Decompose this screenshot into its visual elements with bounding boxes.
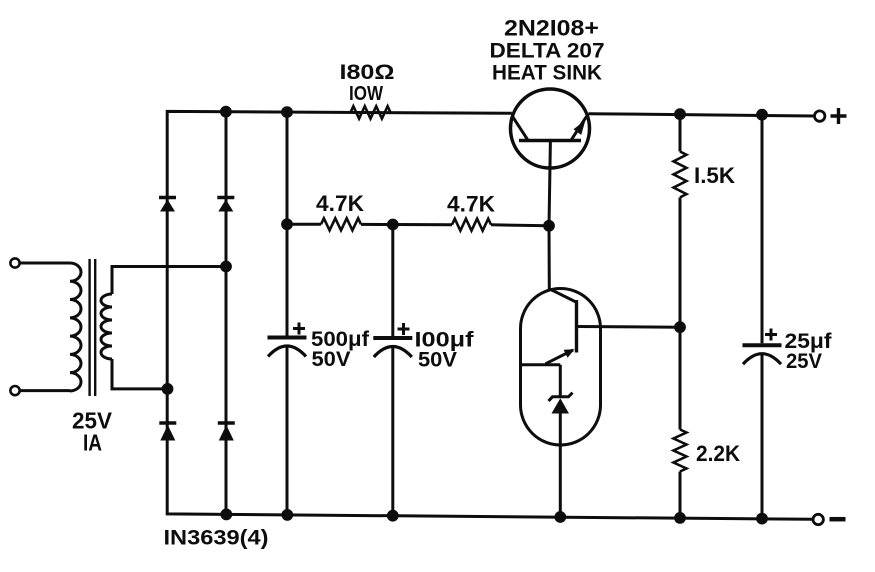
svg-text:I.5K: I.5K (694, 163, 735, 188)
transformer T1 secondary bottom lead (112, 359, 168, 389)
svg-text:DELTA 207: DELTA 207 (490, 40, 605, 63)
wire 1.5K to mid node and to 2.2K (679, 198, 682, 430)
transistor Q1 2N2108 circle (511, 89, 590, 168)
node bottom rail / 25uf (756, 513, 768, 525)
capacitor C3 25uf top plate (743, 343, 782, 347)
transistor Q1 emitter lead (572, 117, 587, 140)
zener diode VR1 triangle (552, 398, 570, 413)
wire vertical line4 (100uf branch upper) (391, 225, 394, 337)
node top rail / line3 (281, 106, 293, 118)
transformer T1 core (88, 259, 90, 396)
svg-text:IA: IA (83, 430, 102, 456)
capacitor C2 plus sign (398, 323, 410, 335)
transformer T1 primary winding (70, 263, 81, 391)
svg-text:2.2K: 2.2K (696, 441, 740, 466)
wire node4 to R3 (393, 223, 452, 226)
node bottom rail / 2.2K (674, 512, 686, 524)
node top rail / 25uf (756, 109, 768, 121)
capacitor C1 500uf top plate (268, 336, 307, 340)
node Q2 base / divider (674, 321, 686, 333)
wire top rail left + left vertical + bottom rail (167, 111, 813, 519)
capacitor C2 100uf top plate (373, 336, 412, 340)
node 4.7K row / line4 (387, 219, 399, 231)
node secondary bottom / line1 (162, 383, 174, 395)
diode D2 cathode bar (217, 196, 234, 199)
transformer T1 primary terminal top (10, 258, 19, 267)
wire 4.7K row: node3 to R2 (287, 223, 321, 226)
wire Q2 emitter down to zener (559, 365, 562, 397)
wire 25uf branch lower (761, 355, 764, 519)
capacitor C3 plus sign (765, 329, 777, 341)
capacitor C2 100uf curved plate (374, 347, 412, 358)
resistor 2.2K zigzag (674, 430, 687, 472)
wire Q2 emitter horizontal (521, 363, 561, 366)
diode D1 cathode bar (159, 196, 176, 199)
wire R2 to node4 (361, 223, 393, 226)
resistor 180 ohm 10W zigzag (351, 106, 391, 118)
diode D4 triangle (219, 425, 234, 441)
transistor Q2 base bar (575, 300, 578, 353)
capacitor C1 plus sign (293, 323, 305, 335)
svg-text:50V: 50V (418, 349, 457, 372)
diode D4 cathode bar (218, 421, 235, 424)
output minus sign (830, 517, 846, 522)
wire vertical line2 (bridge branch) (225, 112, 228, 515)
wire zener to bottom rail (559, 414, 562, 518)
transformer T1 secondary winding (101, 294, 112, 359)
svg-text:4.7K: 4.7K (316, 191, 364, 216)
wire 2.2K to bottom rail (679, 472, 682, 519)
svg-text:25V: 25V (786, 350, 822, 373)
transformer T1 primary bottom lead (20, 389, 71, 392)
transformer T1 primary terminal bottom (10, 386, 19, 395)
node bottom rail / line3 (281, 509, 293, 521)
output terminal plus circle (815, 111, 825, 121)
node 4.7K row / line3 (281, 218, 293, 230)
resistor 1.5K zigzag (674, 152, 687, 198)
wire vertical line3 (500uf branch upper) (286, 112, 289, 336)
wire R3 to Q1 base node (491, 225, 549, 226)
node top rail / line2 (220, 106, 232, 118)
node secondary top / line2 (220, 261, 232, 273)
wire divider line: rail to 1.5K (679, 114, 682, 151)
zener diode VR1 cathode bar (549, 393, 573, 401)
transformer T1 secondary top lead (112, 267, 226, 295)
wire Q2 base to divider node (577, 325, 681, 329)
node top rail / divider (674, 108, 686, 120)
node Q1 base / 4.7K (543, 220, 555, 232)
transistor Q2 emitter lead (546, 350, 574, 364)
svg-text:IOW: IOW (349, 83, 383, 105)
diode D3 cathode bar (159, 421, 176, 424)
wire vertical line4 (100uf branch lower) (391, 348, 394, 516)
wire top rail right (589, 114, 815, 116)
resistor 4.7K left zigzag (321, 218, 361, 230)
capacitor C1 500uf curved plate (268, 346, 306, 357)
wire node to Q2 collector entry (548, 226, 551, 289)
diode D1 triangle (160, 200, 175, 212)
Q2 package stadium outline (521, 289, 601, 446)
wire Q1 base down to 4.7K node (549, 141, 550, 226)
transistor Q1 emitter arrow (574, 120, 586, 135)
wire vertical line3 (500uf branch lower) (286, 348, 289, 516)
node bottom rail / zener (554, 511, 566, 523)
diode D2 triangle (218, 200, 233, 212)
svg-text:4.7K: 4.7K (447, 191, 495, 216)
transistor Q2 collector lead (549, 289, 577, 303)
svg-text:2N2I08+: 2N2I08+ (504, 16, 599, 41)
node bottom rail / line2 (220, 509, 232, 521)
svg-text:HEAT SINK: HEAT SINK (492, 62, 602, 85)
output plus sign (831, 108, 847, 124)
transistor Q2 emitter arrow (564, 349, 575, 358)
node bottom rail / line4 (387, 510, 399, 522)
diode D3 triangle (160, 425, 175, 441)
svg-text:50V: 50V (312, 348, 351, 371)
svg-text:IN3639(4): IN3639(4) (164, 527, 269, 550)
transistor Q1 base bar (519, 139, 581, 142)
wire 25uf branch upper (761, 115, 764, 344)
output terminal minus circle (813, 514, 823, 524)
capacitor C3 25uf curved plate (743, 354, 781, 365)
transistor Q1 collector lead (513, 117, 528, 140)
transformer T1 primary top lead (20, 262, 71, 265)
svg-text:I80Ω: I80Ω (340, 61, 395, 84)
resistor 4.7K right zigzag (452, 219, 491, 231)
